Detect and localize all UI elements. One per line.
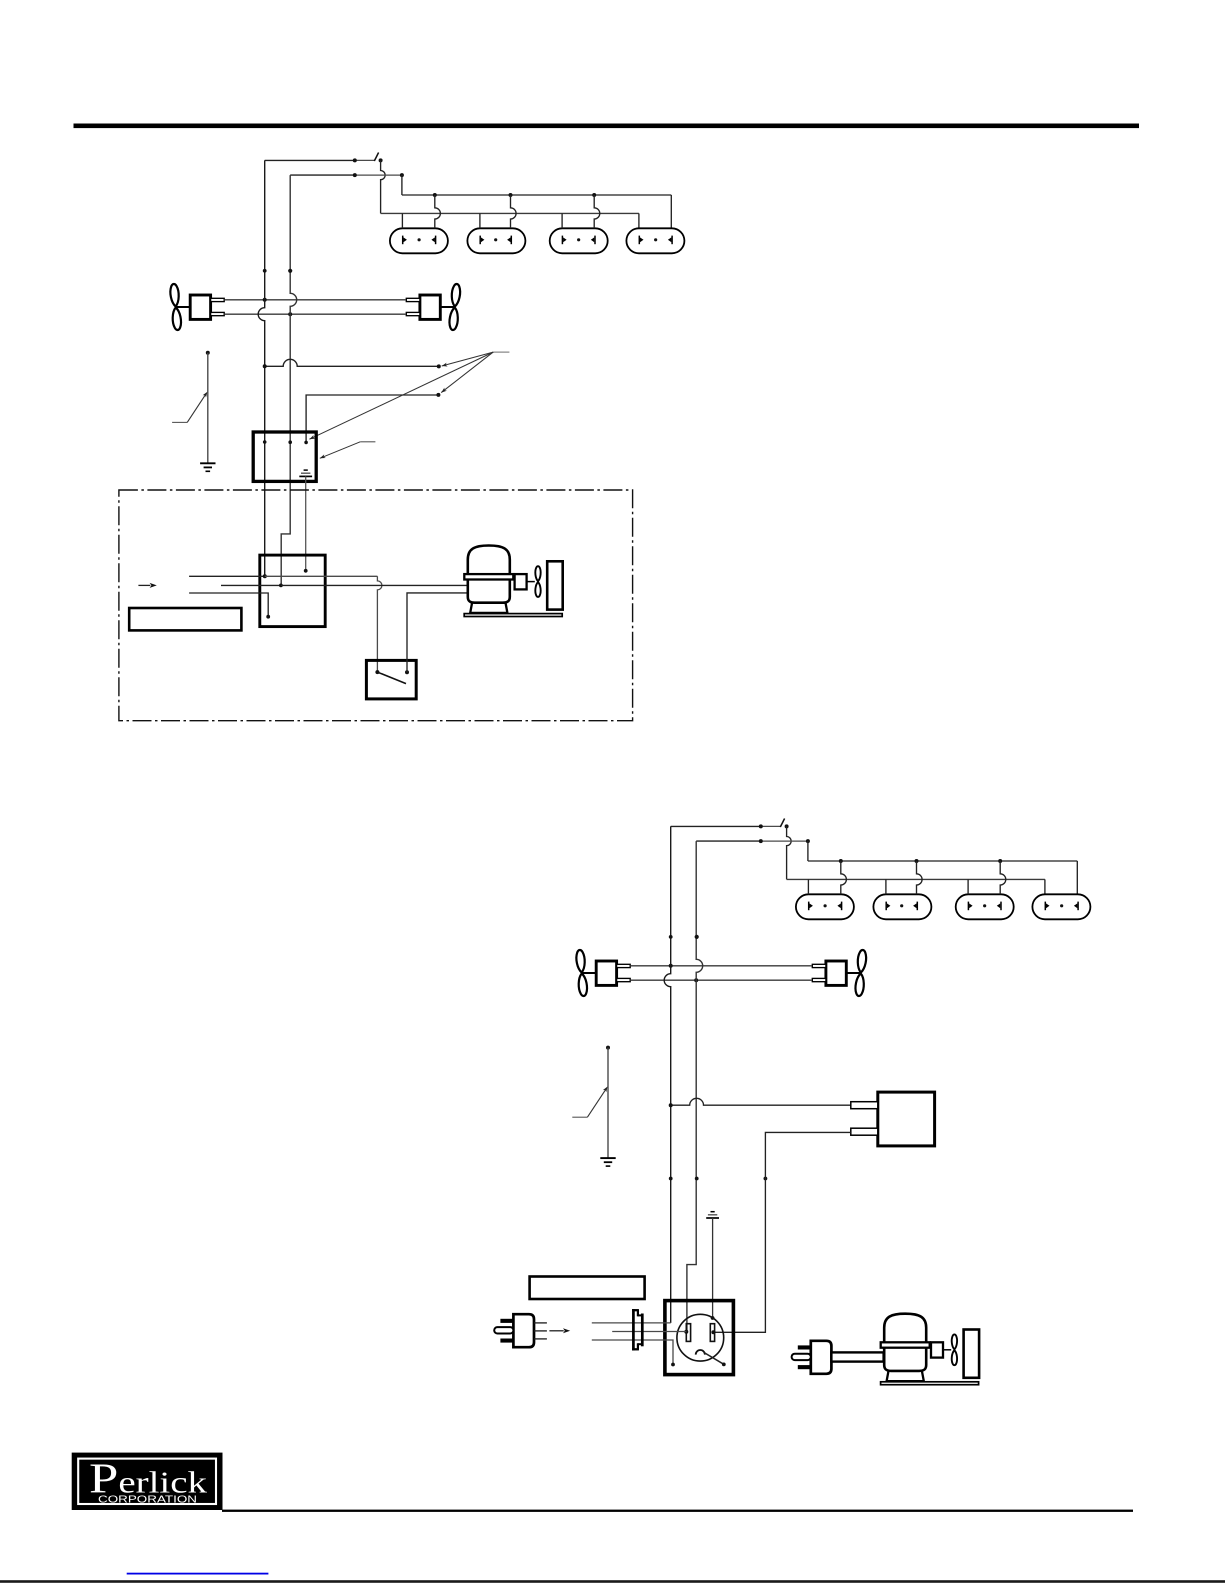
svg-text:CORPORATION: CORPORATION <box>98 1495 197 1506</box>
